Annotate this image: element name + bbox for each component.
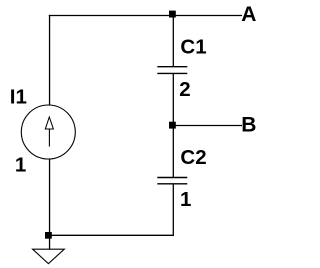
svg-text:I1: I1 xyxy=(10,86,27,109)
svg-text:2: 2 xyxy=(179,78,190,101)
svg-text:B: B xyxy=(241,113,256,136)
svg-text:1: 1 xyxy=(180,188,191,211)
svg-text:C2: C2 xyxy=(180,146,206,169)
svg-text:C1: C1 xyxy=(180,35,206,58)
svg-text:A: A xyxy=(241,3,256,26)
svg-text:1: 1 xyxy=(15,153,26,176)
